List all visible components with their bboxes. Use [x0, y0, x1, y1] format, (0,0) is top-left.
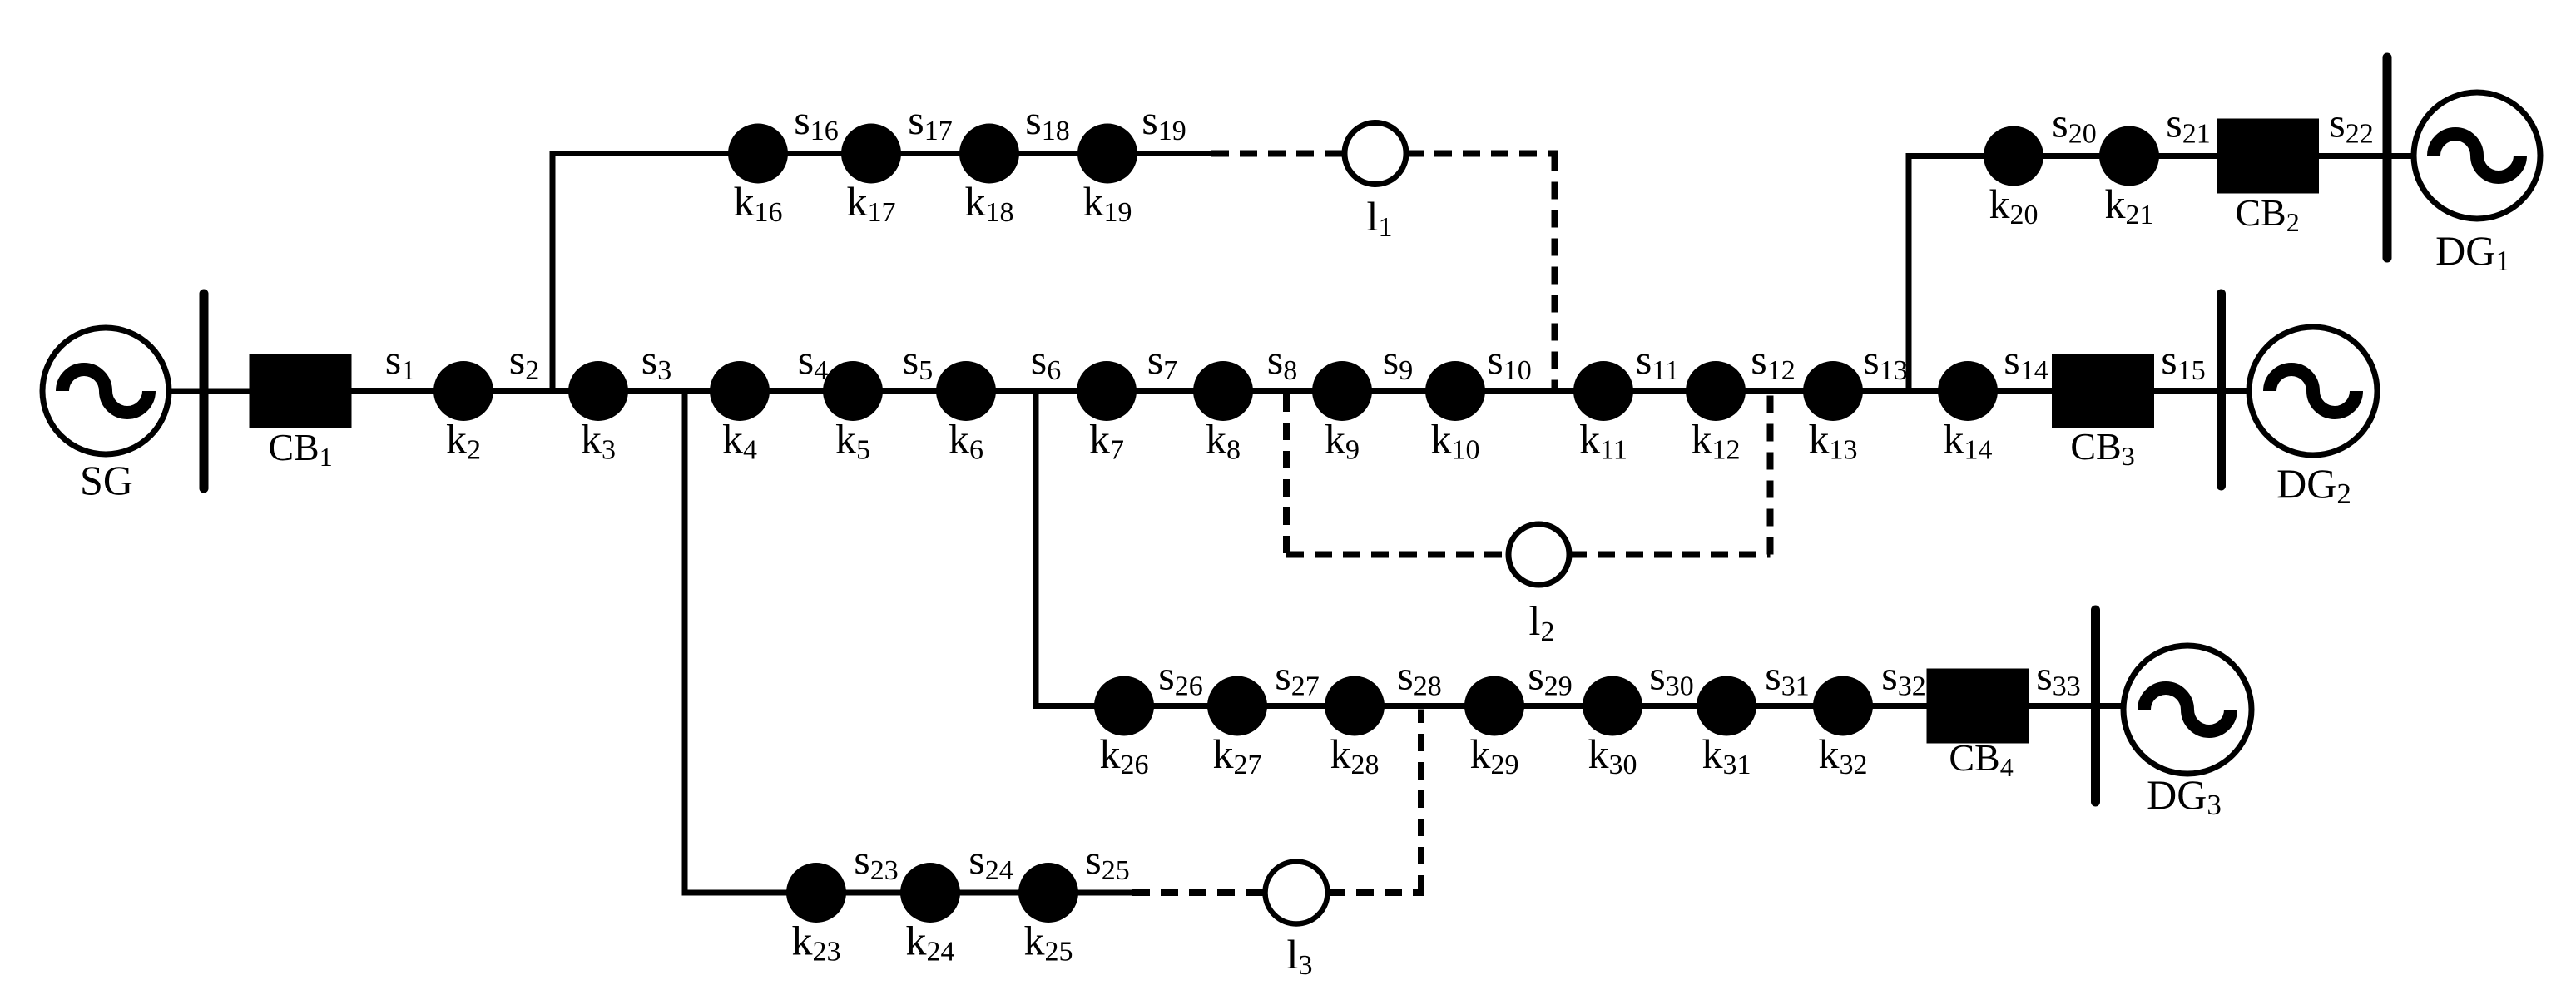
circuit breaker CB2 [2217, 119, 2319, 194]
wire CB4 to DG3 [2029, 703, 2125, 709]
bus bar at DG2 [2217, 294, 2226, 486]
wire top branch [550, 151, 1212, 156]
wire riser to s26 branch [1033, 391, 1039, 709]
node k23 [786, 863, 846, 923]
generator SG [42, 328, 169, 454]
node k11 [1573, 361, 1633, 421]
node k2 [433, 361, 493, 421]
node k31 [1697, 676, 1756, 736]
node k13 [1803, 361, 1863, 421]
node k3 [568, 361, 628, 421]
bus bar at DG3 [2091, 610, 2100, 802]
dashed tie wire s19 to l1 [1211, 151, 1345, 157]
wire l3 branch [682, 890, 1133, 896]
node k18 [959, 124, 1019, 184]
wire riser to DG1 branch [1906, 153, 1912, 391]
node k26 [1094, 676, 1154, 736]
generator DG1 [2414, 92, 2540, 219]
node k20 [1984, 126, 2043, 186]
node k24 [900, 863, 960, 923]
dashed tie wire corner to l2 [1286, 552, 1508, 558]
circuit breaker CB4 [1927, 669, 2029, 744]
node k27 [1207, 676, 1267, 736]
dashed tie wire s12 up [1767, 394, 1774, 555]
dashed tie wire l3 to corner [1328, 889, 1424, 896]
load l3 [1266, 862, 1328, 924]
node k9 [1312, 361, 1372, 421]
node k32 [1813, 676, 1873, 736]
node k10 [1425, 361, 1485, 421]
wire s26 branch [1033, 703, 1928, 709]
circuit breaker CB1 [250, 354, 352, 428]
svg-text:SG: SG [80, 457, 133, 503]
node k21 [2099, 126, 2159, 186]
node k6 [936, 361, 996, 421]
dashed tie wire l2 to corner [1569, 552, 1771, 558]
node k4 [710, 361, 770, 421]
wire DG1 branch [1906, 153, 2217, 159]
node k5 [823, 361, 883, 421]
dashed tie wire s8 down [1283, 394, 1290, 555]
wire riser to top branch [550, 151, 556, 391]
generator DG3 [2123, 646, 2252, 774]
load l1 [1345, 123, 1406, 185]
load l2 [1508, 524, 1569, 585]
node k8 [1193, 361, 1253, 421]
wire riser to l3 branch [682, 391, 688, 896]
dashed tie wire l1 to corner [1406, 151, 1558, 157]
dashed tie wire up to s28 [1418, 710, 1424, 894]
node k12 [1686, 361, 1746, 421]
node k28 [1325, 676, 1385, 736]
node k14 [1938, 361, 1998, 421]
wire CB2 to DG1 [2319, 153, 2415, 159]
wire main feeder CB1 to CB3 [352, 388, 2053, 394]
node k7 [1077, 361, 1137, 421]
wire SG to CB1 [169, 389, 250, 394]
node k30 [1583, 676, 1642, 736]
node k17 [841, 124, 901, 184]
node k16 [728, 124, 788, 184]
node k25 [1018, 863, 1078, 923]
wire CB3 to DG2 [2154, 388, 2250, 394]
dashed tie wire s25 to l3 [1132, 889, 1265, 896]
bus bar at SG [200, 294, 209, 488]
generator DG2 [2249, 327, 2377, 455]
dashed tie wire down to main feeder [1552, 154, 1558, 389]
bus bar at DG1 [2383, 57, 2392, 258]
circuit breaker CB3 [2052, 354, 2154, 428]
node k19 [1077, 124, 1137, 184]
node k29 [1464, 676, 1524, 736]
